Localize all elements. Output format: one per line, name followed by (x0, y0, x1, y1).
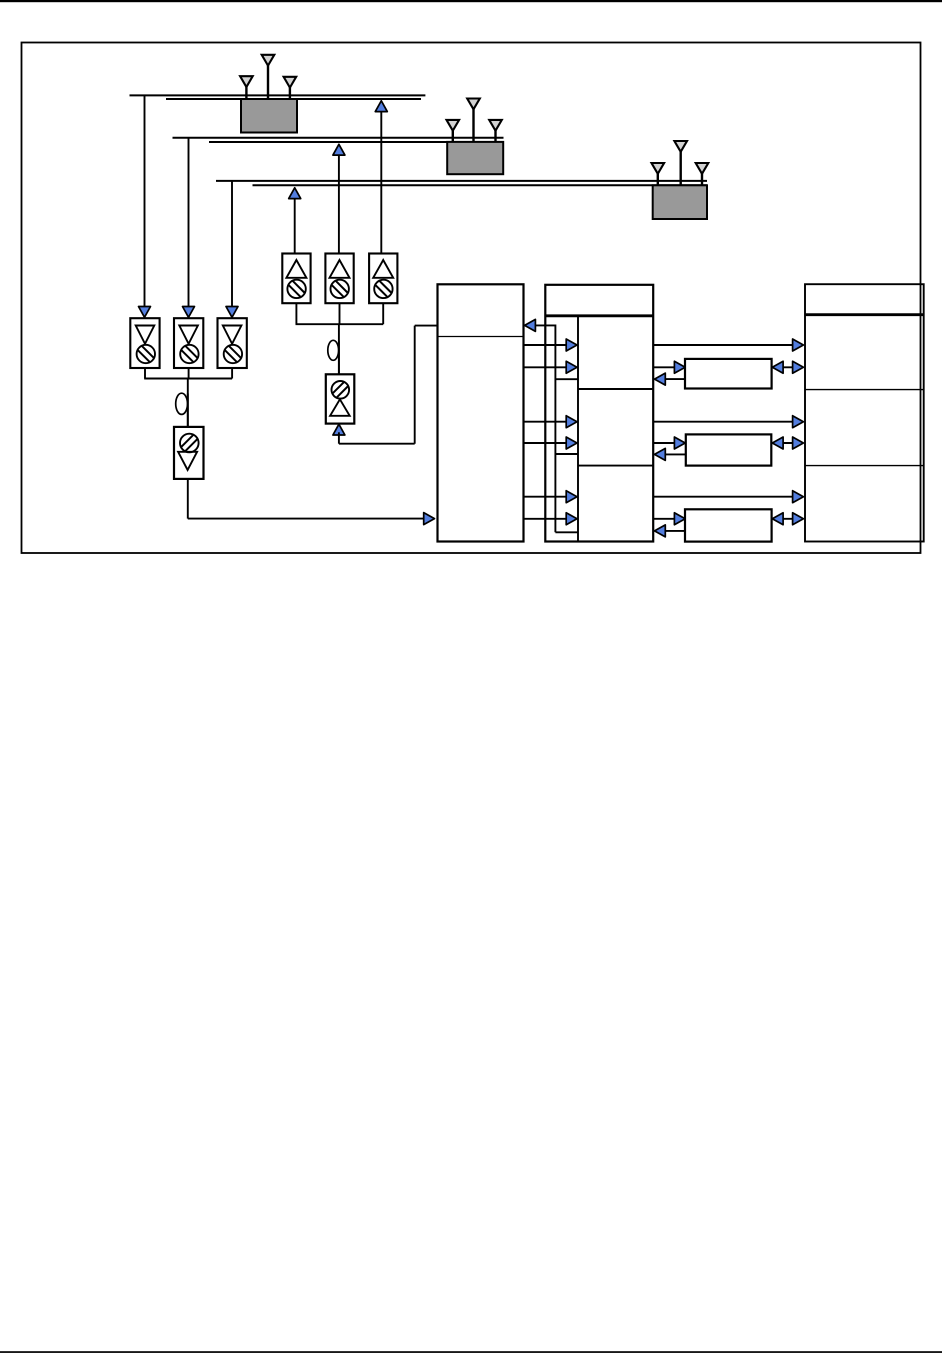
coupler link wire 3 (772, 518, 804, 520)
floor bus 2 line a (173, 137, 504, 139)
downlink wire bus3 (231, 181, 233, 307)
arrow into module 2a (566, 416, 577, 428)
arrow into module 2b (566, 437, 577, 449)
repeater unit 2 (447, 142, 503, 174)
arrow into remote unit 1 lower (793, 361, 804, 373)
control unit B header divider (545, 314, 653, 317)
tx splitter box (326, 374, 355, 423)
trunk wire 3 (653, 496, 792, 498)
uplink wire to bus1 (380, 109, 382, 254)
arrow into remote unit 3 (793, 491, 804, 503)
arrow into control unit 3 (655, 525, 666, 537)
rx stub 1 (144, 368, 146, 379)
collector stub 3 (555, 531, 578, 533)
arrow into coupler 1 right (772, 361, 783, 373)
floor bus 1 line b (166, 98, 421, 100)
rx stub 2 (188, 368, 190, 379)
arrow into coupler 3 right (772, 513, 783, 525)
tx stub 2 (339, 303, 341, 324)
collector wire v (554, 325, 556, 533)
remote unit C header divider (805, 313, 924, 316)
coupler feed wire 1 (653, 366, 674, 368)
uplink wire to bus3 (294, 196, 296, 254)
rx trunk wire (187, 379, 189, 428)
tx join wire (296, 323, 384, 325)
rx output wire h (188, 518, 424, 520)
arrow into remote unit 2 lower (793, 437, 804, 449)
arrow into remote unit 2 (793, 416, 804, 428)
arrow into bus 3 (289, 188, 301, 199)
repeater unit 3 (653, 185, 707, 219)
coupler feed wire 2 (653, 442, 674, 444)
rx join wire (144, 378, 232, 380)
tx trunk wire 2 (338, 341, 340, 375)
coupler return wire 1 (666, 378, 686, 380)
arrow into base unit A (525, 319, 536, 331)
page bottom rule (0, 1351, 942, 1353)
coupler link wire 2 (772, 442, 804, 444)
base unit A divider (438, 336, 524, 338)
tx stub 1 (295, 303, 297, 324)
antenna 3b (674, 141, 687, 185)
antenna 1b (262, 55, 275, 99)
feed wire 3b (523, 518, 567, 520)
coupler return wire 2 (666, 453, 686, 455)
downlink wire bus2 (188, 138, 190, 307)
arrow into remote unit 3 lower (793, 513, 804, 525)
rx filter box 1 (130, 318, 159, 368)
floor bus 3 line b (253, 184, 708, 186)
tx feed wire v2 (414, 326, 416, 444)
floor bus 3 line a (216, 180, 707, 182)
arrow into coupler 1 (674, 361, 685, 373)
rx output wire v (187, 479, 189, 519)
feed wire 2b (523, 442, 567, 444)
tx feed wire h2 (415, 325, 438, 327)
uplink wire to bus2 (338, 152, 340, 254)
rx combiner box (174, 427, 204, 479)
tx amp box 1 (282, 254, 310, 304)
control unit B inner edge (577, 316, 579, 542)
rx cable loop (176, 393, 188, 414)
antenna 3a (652, 163, 665, 185)
arrow into rx filter 1 (139, 307, 151, 318)
remote unit C (805, 284, 924, 541)
remote unit C divider 1 (805, 389, 924, 391)
tx feed wire v1 (338, 432, 340, 443)
trunk wire 2 (653, 421, 792, 423)
arrow into module 1b (566, 361, 577, 373)
coupler return wire 3 (666, 530, 686, 532)
coupler 1 (685, 359, 772, 389)
tx cable loop (328, 340, 339, 360)
arrow into module 3a (566, 491, 577, 503)
arrow into bus 2 (333, 144, 345, 155)
control unit B (545, 285, 653, 542)
collector wire h (535, 324, 555, 326)
floor bus 2 line b (209, 141, 504, 143)
tx stub 3 (382, 303, 384, 324)
tx amp box 2 (325, 254, 353, 304)
feed wire 3a (523, 496, 567, 498)
arrow into module 1a (566, 339, 577, 351)
remote unit C divider 2 (805, 465, 924, 467)
arrow into coupler 3 (674, 513, 685, 525)
coupler 3 (685, 509, 772, 541)
tx amp box 3 (369, 254, 397, 304)
arrow into base unit rx (424, 513, 435, 525)
antenna 2a (447, 120, 460, 142)
arrow into control unit 1 (655, 373, 666, 385)
arrow into tx splitter (333, 424, 345, 435)
antenna 2b (467, 99, 480, 142)
arrow into remote unit 1 (793, 339, 804, 351)
collector stub 1 (555, 378, 578, 380)
page top rule (0, 0, 942, 2)
arrow into rx filter 3 (226, 307, 238, 318)
repeater unit 1 (241, 99, 297, 133)
figure frame (22, 43, 921, 554)
carrier module divider 1 (578, 388, 653, 390)
antenna 3c (696, 163, 709, 185)
arrow into coupler 2 (674, 437, 685, 449)
antenna 1a (240, 76, 253, 99)
floor bus 1 line a (130, 94, 426, 96)
antenna 1c (284, 77, 297, 99)
arrow into control unit 2 (655, 448, 666, 460)
arrow into module 3b (566, 513, 577, 525)
rx trunk wire 2 (187, 394, 189, 428)
tx feed wire h1 (339, 443, 415, 445)
collector stub 2 (555, 453, 578, 455)
trunk wire 1 (653, 344, 792, 346)
carrier module divider 2 (578, 465, 653, 467)
coupler link wire 1 (772, 366, 804, 368)
feed wire 2a (523, 421, 567, 423)
tx trunk wire (338, 324, 340, 374)
base unit A (438, 284, 524, 541)
coupler 2 (686, 434, 772, 465)
arrow into coupler 2 right (772, 437, 783, 449)
arrow into rx filter 2 (183, 307, 195, 318)
feed wire 1b (523, 366, 567, 368)
rx stub 3 (231, 368, 233, 379)
coupler feed wire 3 (653, 518, 674, 520)
rx filter box 2 (174, 318, 203, 368)
antenna 2c (489, 120, 502, 142)
arrow into bus 1 (375, 101, 387, 112)
downlink wire bus1 (144, 95, 146, 306)
rx filter box 3 (218, 318, 247, 368)
feed wire 1a (523, 344, 567, 346)
